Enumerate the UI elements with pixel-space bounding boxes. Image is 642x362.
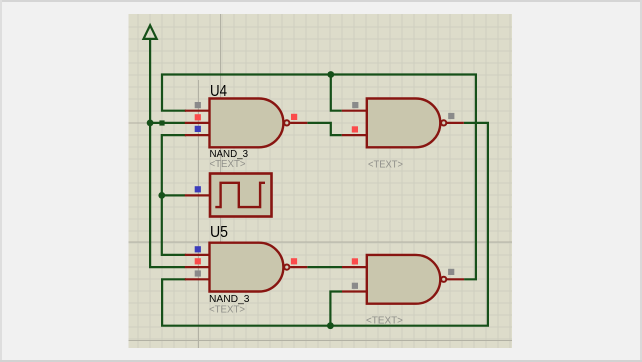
svg-text:NAND_3: NAND_3: [209, 294, 250, 305]
svg-text:<TEXT>: <TEXT>: [368, 159, 403, 170]
svg-text:<TEXT>: <TEXT>: [209, 305, 245, 316]
svg-text:U5: U5: [210, 224, 228, 241]
svg-text:U4: U4: [210, 83, 227, 100]
svg-text:<TEXT>: <TEXT>: [366, 315, 403, 326]
svg-text:<TEXT>: <TEXT>: [210, 159, 246, 170]
